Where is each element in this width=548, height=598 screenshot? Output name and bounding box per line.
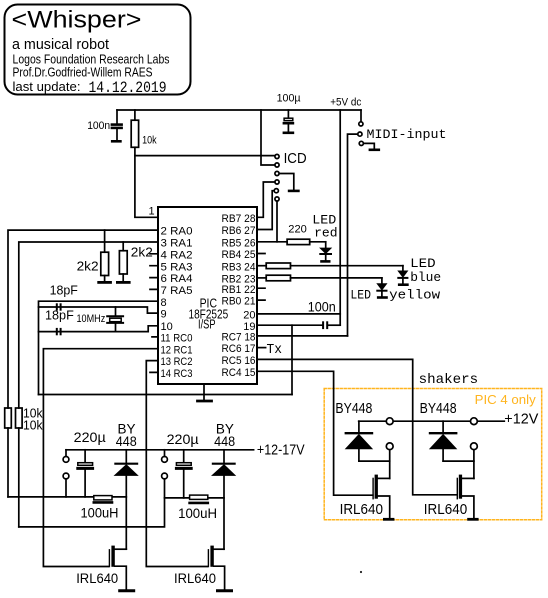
svg-text:100uH: 100uH xyxy=(178,505,217,521)
svg-text:IRL640: IRL640 xyxy=(424,501,467,518)
svg-text:RB1 22: RB1 22 xyxy=(222,284,256,296)
svg-text:10: 10 xyxy=(161,321,173,333)
resistor R-220 LED red xyxy=(257,239,326,244)
svg-text:ICD: ICD xyxy=(284,150,307,167)
svg-text:RB3 24: RB3 24 xyxy=(222,261,256,273)
resistor R-10k lower first xyxy=(5,408,12,497)
capacitor C-18pF top (series) xyxy=(56,303,62,310)
wire pin3 RA1 to left bus xyxy=(19,242,158,408)
capacitor C-100n decoupling (series) xyxy=(322,321,328,329)
PIC chip body U1 xyxy=(158,207,257,384)
wire ICD pin5 to PIC pin 27 xyxy=(257,191,274,230)
wire pin13 RC2 to gate bus 2 xyxy=(146,361,207,567)
wire ICD pin4 to PIC pin 28 xyxy=(257,182,275,217)
svg-text:IRL640: IRL640 xyxy=(174,570,216,586)
svg-text:LED: LED xyxy=(410,256,436,271)
svg-text:<Whisper>: <Whisper> xyxy=(12,7,142,34)
wire +12-17V top rail xyxy=(66,449,254,451)
capacitor C-100n top-left xyxy=(112,110,122,141)
wire ICD vdd from top rail xyxy=(261,110,275,165)
svg-text:RC6 17: RC6 17 xyxy=(222,343,256,355)
svg-text:12 RC1: 12 RC1 xyxy=(161,344,193,356)
MIDI connector pins xyxy=(358,122,364,146)
svg-text:10k: 10k xyxy=(142,134,157,146)
wire ICD pin6 to PIC pin 26 net xyxy=(276,201,278,242)
svg-text:IRL640: IRL640 xyxy=(340,501,383,518)
svg-text:1: 1 xyxy=(149,206,155,218)
wire top +5V rail horizontal xyxy=(117,109,361,111)
pin stubs right side xyxy=(257,254,265,301)
LED yellow xyxy=(377,278,386,298)
svg-text:IRL640: IRL640 xyxy=(76,570,118,586)
capacitor C-100u electrolytic xyxy=(284,110,293,133)
connector shaker1 pins xyxy=(386,418,393,479)
svg-text:14 RC3: 14 RC3 xyxy=(161,368,193,380)
wire driver2 feed xyxy=(19,479,165,527)
svg-text:RB5 26: RB5 26 xyxy=(222,237,256,249)
svg-text:+5V dc: +5V dc xyxy=(330,96,361,108)
svg-text:8: 8 xyxy=(161,297,167,309)
svg-text:10k: 10k xyxy=(23,418,43,433)
svg-text:PIC 4 only: PIC 4 only xyxy=(475,392,536,407)
svg-text:9: 9 xyxy=(161,309,167,321)
node MCLR junction / wire to ICD pin1 xyxy=(135,155,275,157)
LED blue xyxy=(398,266,407,285)
wire MIDI drop from top rail xyxy=(360,110,362,121)
stray dot xyxy=(360,571,362,573)
svg-text:BY448: BY448 xyxy=(420,400,457,417)
svg-text:red: red xyxy=(314,226,338,241)
wire driver2 bottom xyxy=(165,497,225,499)
wire pin19 VSS row xyxy=(257,324,322,326)
svg-text:7 RA5: 7 RA5 xyxy=(161,285,193,297)
svg-text:100uH: 100uH xyxy=(81,504,119,520)
svg-text:I/SP: I/SP xyxy=(198,317,216,332)
resistor R-2k2 second xyxy=(117,242,129,282)
svg-text:10MHz: 10MHz xyxy=(77,313,106,325)
diode BY448 driver2 xyxy=(212,450,235,549)
resistor R-10k lower second xyxy=(16,408,23,527)
diode BY448 shaker2 xyxy=(430,421,456,461)
svg-text:RC4 15: RC4 15 xyxy=(222,367,256,379)
pin17 Tx stub xyxy=(257,347,266,349)
crystal X1 10MHz xyxy=(107,307,123,332)
wire VSS drop to ground line xyxy=(291,325,293,394)
connector driver2 pins xyxy=(162,450,168,479)
svg-text:18pF: 18pF xyxy=(50,283,78,298)
svg-text:448: 448 xyxy=(116,433,137,449)
capacitor C-220u driver2 xyxy=(176,450,191,498)
svg-text:RB7 28: RB7 28 xyxy=(222,213,256,225)
svg-text:100n: 100n xyxy=(87,120,110,132)
capacitor C-220u driver1 xyxy=(78,450,93,497)
inductor L-100uH driver2 xyxy=(190,495,208,503)
wire MCLR down to PIC pin 1 xyxy=(135,156,158,218)
svg-text:last update:: last update: xyxy=(13,79,81,94)
connector shaker2 pins xyxy=(471,418,478,479)
svg-text:BY448: BY448 xyxy=(335,400,372,417)
svg-text:shakers: shakers xyxy=(419,372,479,388)
svg-text:RB4 25: RB4 25 xyxy=(222,249,256,261)
svg-text:4 RA2: 4 RA2 xyxy=(161,249,193,261)
wire pin18 RC7 row (MIDI RX) xyxy=(257,335,348,337)
ground stub under chip xyxy=(198,384,212,401)
wire pin12 RC1 to gate bus 1 xyxy=(43,349,158,567)
ICD connector pins xyxy=(274,154,279,201)
inductor L-100uH driver1 xyxy=(94,496,112,503)
svg-text:220: 220 xyxy=(288,224,307,236)
title block frame xyxy=(5,5,191,95)
svg-text:blue: blue xyxy=(410,270,441,285)
svg-text:5 RA3: 5 RA3 xyxy=(161,261,193,273)
svg-text:Tx: Tx xyxy=(267,342,283,358)
svg-text:RC7 18: RC7 18 xyxy=(222,332,256,344)
resistor R-10k top xyxy=(131,110,138,156)
wire pin8 VSS to ground bus xyxy=(39,301,159,394)
wire pin20 VDD to rail xyxy=(257,313,340,315)
transistor Q3 IRL640 shaker1 xyxy=(373,475,393,520)
svg-text:100µ: 100µ xyxy=(277,92,302,104)
svg-text:+12-17V: +12-17V xyxy=(257,441,305,458)
svg-text:14.12.2019: 14.12.2019 xyxy=(89,79,167,97)
svg-text:18pF: 18pF xyxy=(45,308,74,323)
svg-text:220µ: 220µ xyxy=(74,429,106,445)
wire pin16 RC5 to shaker2 gate xyxy=(257,359,457,494)
svg-text:MIDI-input: MIDI-input xyxy=(367,127,447,142)
svg-text:220µ: 220µ xyxy=(167,431,199,447)
svg-text:a musical robot: a musical robot xyxy=(12,36,110,53)
svg-text:6 RA4: 6 RA4 xyxy=(161,273,193,285)
svg-text:Prof.Dr.Godfried-Willem RAES: Prof.Dr.Godfried-Willem RAES xyxy=(13,65,153,80)
pin stubs left side xyxy=(150,254,158,373)
diode BY448 driver1 xyxy=(115,450,138,549)
wire pin2 RA0 to left bus xyxy=(8,230,158,408)
svg-text:11 RC0: 11 RC0 xyxy=(161,333,193,345)
chip pin labels left xyxy=(161,226,193,380)
transistor Q4 IRL640 shaker2 xyxy=(457,475,477,520)
chip pin labels right xyxy=(222,213,256,379)
wire pin9 OSC line xyxy=(39,307,159,313)
svg-text:3 RA1: 3 RA1 xyxy=(161,238,193,250)
capacitor C-18pF bottom (series) xyxy=(56,328,62,335)
svg-text:100n: 100n xyxy=(308,299,336,315)
resistor R pin23 xyxy=(257,275,382,281)
svg-text:2k2: 2k2 xyxy=(77,259,99,274)
wire shaker1 node xyxy=(359,460,390,462)
wire MIDI pin2 to RC7 xyxy=(348,134,358,336)
resistor R-2k2 first xyxy=(99,230,111,282)
svg-text:448: 448 xyxy=(214,433,235,449)
svg-text:2k2: 2k2 xyxy=(131,245,153,260)
diode BY448 shaker1 xyxy=(346,421,372,461)
svg-text:LED: LED xyxy=(350,288,371,303)
transistor Q2 IRL640 xyxy=(208,546,231,591)
wire +5V vertical rail xyxy=(339,110,341,325)
wire pin15 RC4 to shaker1 gate xyxy=(257,371,373,495)
svg-text:+12V: +12V xyxy=(504,411,538,428)
svg-text:13 RC2: 13 RC2 xyxy=(161,356,193,368)
wire shaker2 node xyxy=(443,460,474,462)
svg-text:2 RA0: 2 RA0 xyxy=(161,226,193,238)
resistor R pin24 xyxy=(257,263,403,269)
wire +12V rail shakers xyxy=(359,420,505,422)
svg-text:yellow: yellow xyxy=(389,287,440,302)
ground ICD pin3 xyxy=(279,174,298,191)
ground line under chip xyxy=(39,394,293,396)
wire driver1 bottom xyxy=(8,496,126,498)
shakers box dashed xyxy=(324,389,542,520)
connector driver1 pins xyxy=(63,450,69,497)
LED red xyxy=(320,242,331,262)
svg-text:20: 20 xyxy=(243,310,255,322)
transistor Q1 IRL640 xyxy=(109,546,133,591)
wire pin10 OSC line xyxy=(39,326,159,332)
svg-text:RC5 16: RC5 16 xyxy=(222,355,256,367)
ground MIDI pin3 xyxy=(364,143,379,149)
svg-text:RB6 27: RB6 27 xyxy=(222,225,256,237)
